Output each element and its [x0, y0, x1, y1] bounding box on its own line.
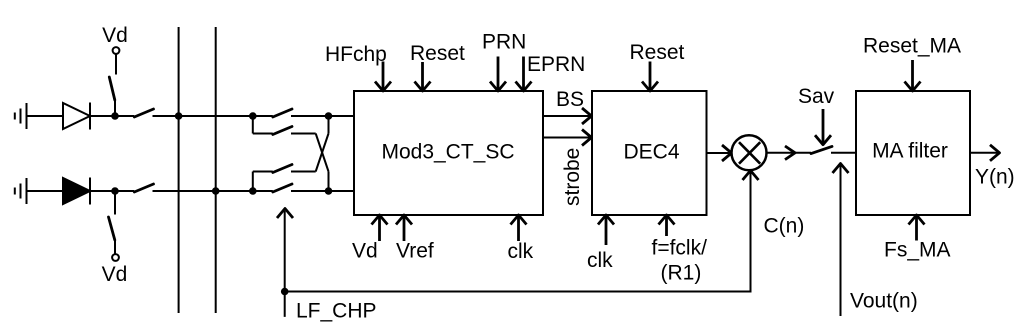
- switch S1 (vertical, node A to Vd top): [109, 54, 116, 113]
- block U3 MA filter: [856, 91, 970, 215]
- wire GND2 to D2: [27, 190, 64, 192]
- junction dot rail2 x bus2: [212, 187, 220, 195]
- svg-text:Mod3_CT_SC: Mod3_CT_SC: [381, 141, 514, 164]
- wire crossover diagonal (lower to upper): [316, 116, 329, 172]
- arrow PRN into U1: [490, 57, 506, 92]
- svg-text:C(n): C(n): [764, 215, 805, 238]
- svg-text:BS: BS: [556, 88, 584, 111]
- wire GND1 to D1: [27, 115, 64, 117]
- arrow Vd into U1 bottom: [372, 215, 388, 241]
- wire Y(n) output with arrow: [970, 145, 1000, 161]
- svg-text:Reset: Reset: [630, 41, 685, 64]
- bus line 1 (vertical): [178, 27, 180, 313]
- arrow EPRN into U1: [516, 57, 532, 92]
- terminal Vd (top): [113, 47, 120, 54]
- svg-text:HFchp: HFchp: [325, 43, 387, 66]
- svg-text:Sav: Sav: [798, 85, 835, 108]
- svg-text:strobe: strobe: [561, 148, 584, 206]
- wire U2 output to multiplier with arrow: [707, 145, 732, 161]
- arrow Vref into U1 bottom: [396, 215, 412, 241]
- switch S7 on upper branch: [273, 127, 292, 135]
- switch S3 on top rail: [253, 109, 329, 117]
- svg-text:DEC4: DEC4: [623, 141, 679, 164]
- wire BS U1 to U2 with arrow: [543, 108, 592, 124]
- wire top rail bus1 to node B: [179, 115, 253, 117]
- wire multiplier to Sav switch with mid arrow: [767, 146, 812, 160]
- arrow clk into U2 bottom: [598, 215, 614, 245]
- wire LF_CHP vertical with arrow: [277, 209, 293, 317]
- diode D1 (open): [63, 103, 90, 130]
- svg-text:Vd: Vd: [102, 24, 128, 47]
- node B junction dot: [249, 112, 257, 120]
- node D junction dot: [111, 187, 119, 195]
- arrow Sav control: [815, 109, 831, 145]
- arrow Fs_MA into U3 bottom: [909, 215, 925, 241]
- wire Sav switch to U3: [831, 152, 856, 154]
- arrow f=fclk/(R1) into U2 bottom: [659, 215, 675, 236]
- svg-text:Vd: Vd: [102, 263, 128, 286]
- multiplier M1 (circle X): [732, 135, 767, 170]
- svg-text:EPRN: EPRN: [527, 53, 585, 76]
- wire lower chopper branch: [253, 172, 273, 192]
- svg-text:Reset_MA: Reset_MA: [863, 35, 961, 58]
- junction dot rail1 x bus1: [175, 112, 183, 120]
- wire crossover diagonal (upper to lower): [316, 134, 329, 192]
- node A junction dot: [111, 112, 119, 120]
- svg-text:Vd: Vd: [352, 240, 378, 263]
- wire node C to Mod3 input: [329, 115, 356, 117]
- svg-text:Fs_MA: Fs_MA: [884, 239, 951, 262]
- diode D2 (filled): [63, 178, 90, 205]
- wire bottom rail bus2 to node E: [216, 190, 253, 192]
- switch S5 on bottom rail: [119, 184, 216, 192]
- svg-text:(R1): (R1): [661, 262, 702, 285]
- wire bottom feedback horizontal: [285, 291, 752, 293]
- svg-text:clk: clk: [508, 240, 534, 263]
- switch S9 (Sav): [811, 146, 832, 153]
- svg-text:MA filter: MA filter: [872, 140, 948, 163]
- wire upper chopper branch: [253, 116, 273, 134]
- ground GND1 (top-left): [15, 103, 27, 129]
- wire C(n) vertical into multiplier with arrow: [743, 171, 759, 292]
- node E junction dot: [249, 187, 257, 195]
- bus line 2 (vertical): [215, 27, 217, 313]
- svg-text:Vout(n): Vout(n): [850, 290, 918, 313]
- wire node F to Mod3 input: [329, 190, 356, 192]
- switch S6 on bottom rail: [253, 184, 329, 192]
- wire D2 to node D: [90, 190, 115, 192]
- arrow Reset_MA into U3: [905, 60, 921, 91]
- arrow Reset into U1: [415, 62, 431, 91]
- node F junction dot: [325, 187, 333, 195]
- arrow Reset into U2: [642, 62, 658, 92]
- block U2 DEC4: [592, 91, 707, 215]
- wire Vout(n) vertical with arrow: [833, 164, 849, 317]
- svg-text:f=fclk/: f=fclk/: [652, 237, 708, 260]
- switch S2 on top rail: [119, 109, 179, 117]
- wire upper branch to crossover: [291, 133, 316, 135]
- node G junction dot (LF_CHP): [281, 288, 289, 296]
- ground GND2 (bottom-left): [15, 178, 27, 204]
- wire lower branch to crossover: [291, 171, 316, 173]
- svg-text:Y(n): Y(n): [975, 166, 1015, 189]
- arrow HFchp into U1: [375, 62, 391, 92]
- block U1 Mod3_CT_SC: [354, 91, 543, 215]
- terminal Vd (bottom): [112, 254, 119, 261]
- svg-text:PRN: PRN: [482, 31, 526, 54]
- node C junction dot: [325, 112, 333, 120]
- switch S4 (vertical, node D to Vd bottom): [109, 191, 116, 254]
- svg-text:clk: clk: [587, 249, 613, 272]
- wire D1 to node A: [90, 115, 115, 117]
- svg-text:LF_CHP: LF_CHP: [296, 300, 377, 323]
- svg-text:Reset: Reset: [410, 42, 465, 65]
- switch S8 on lower branch: [273, 165, 292, 173]
- svg-text:Vref: Vref: [396, 240, 434, 263]
- wire strobe U1 to U2 with arrow: [543, 130, 592, 146]
- arrow clk into U1 bottom: [511, 215, 527, 241]
